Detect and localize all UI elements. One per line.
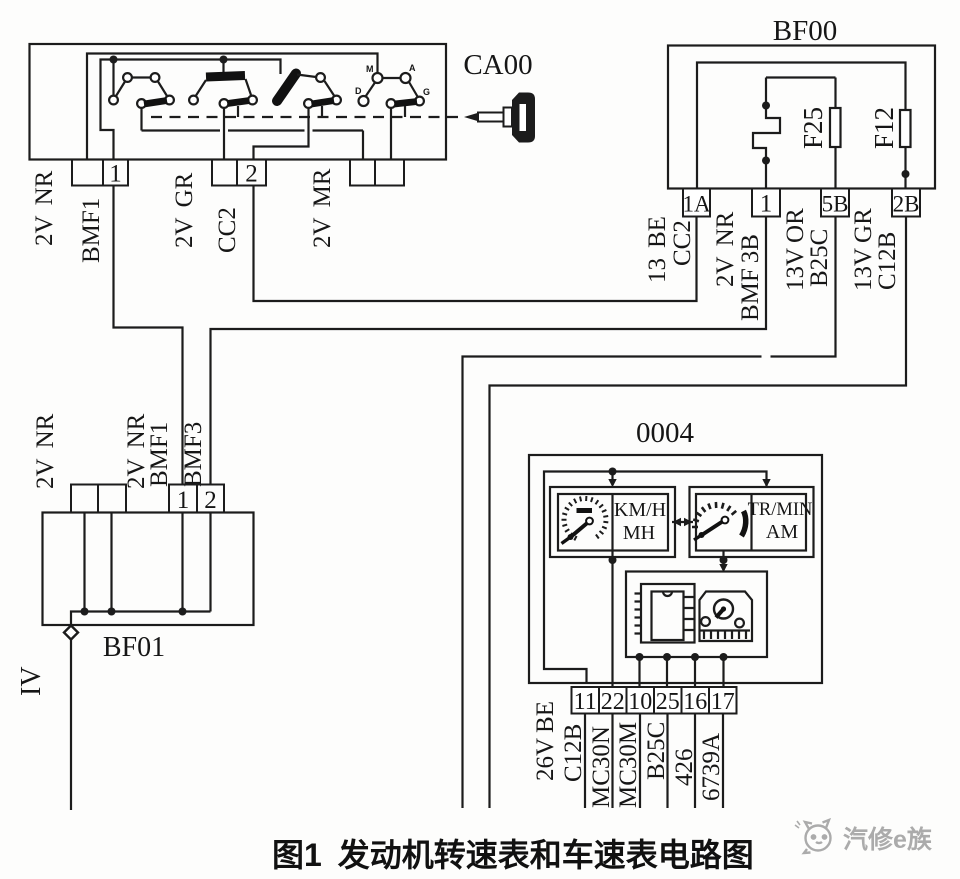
tachometer gauge icon: [692, 502, 736, 527]
switch S2 bridge bar: [206, 76, 245, 78]
contact bus y130 with crossover hops: [142, 131, 364, 160]
cluster 0004 box: [529, 455, 822, 683]
switch S4 arms: [366, 78, 418, 97]
svg-text:2V NR: 2V NR: [32, 413, 59, 489]
switch S1 wiper arms: [116, 78, 167, 97]
svg-text:1A: 1A: [682, 192, 711, 217]
svg-text:26V BE: 26V BE: [532, 701, 559, 781]
fuse box BF00: [668, 46, 935, 189]
switch S4 closed contact bar: [395, 102, 418, 105]
stub to speedometer: [611, 472, 613, 486]
svg-text:17: 17: [711, 689, 735, 715]
svg-text:图1 发动机转速表和车速表电路图: 图1 发动机转速表和车速表电路图: [272, 837, 754, 873]
wire S2 output down to 2V GR pin: [223, 108, 225, 160]
svg-text:G: G: [423, 87, 430, 97]
switch S4 contacts M A D G: [359, 73, 424, 108]
switch S4 actuator stub: [404, 106, 406, 117]
switch S3 rotor bar: [277, 74, 296, 102]
svg-text:2B: 2B: [893, 192, 920, 217]
svg-text:1: 1: [109, 161, 122, 188]
svg-text:13 BE: 13 BE: [644, 216, 671, 283]
junction dot: [220, 56, 228, 64]
pin wires down: [585, 714, 723, 809]
svg-text:B25C: B25C: [806, 229, 833, 287]
svg-text:BMF1: BMF1: [146, 422, 173, 487]
wire speedo to pin 22: [611, 551, 613, 688]
switch S3 actuator stub: [321, 106, 323, 117]
svg-text:1: 1: [177, 487, 190, 514]
svg-text:11: 11: [574, 689, 597, 715]
internal bus: [71, 612, 211, 627]
regulator component: [700, 592, 753, 642]
wire S3 output to pin 2: [254, 108, 309, 160]
fuse F25: [834, 78, 836, 189]
svg-text:TR/MIN: TR/MIN: [748, 500, 813, 520]
svg-text:2V NR: 2V NR: [31, 170, 58, 246]
wire dot to switch S1 pivot: [112, 60, 114, 96]
tie bar breaker to F25: [766, 76, 836, 78]
wire CC2 from CA00 pin2 to BF00 pin 1A: [254, 186, 697, 302]
switch S3 closed contact bar: [312, 101, 335, 105]
svg-text:6739A: 6739A: [698, 733, 725, 801]
svg-text:1: 1: [760, 191, 773, 218]
svg-text:MC30M: MC30M: [615, 722, 642, 808]
switch S3 contacts: [304, 73, 341, 108]
svg-text:M: M: [366, 64, 374, 74]
svg-text:F25: F25: [798, 107, 828, 149]
internal wires to bus: [85, 513, 211, 612]
junction dots: [81, 608, 89, 616]
svg-text:CC2: CC2: [214, 207, 241, 253]
junction dot below F12: [902, 170, 910, 178]
svg-text:C12B: C12B: [874, 232, 901, 290]
wire S1 output to contact bus y130: [140, 108, 142, 131]
svg-text:2V GR: 2V GR: [171, 172, 198, 248]
switch S2 contacts: [189, 96, 257, 108]
wire net to 2V NR box and switch S4 (y53 bus): [87, 54, 378, 160]
svg-text:A: A: [409, 63, 416, 73]
switch S1 closed contact bar: [144, 101, 167, 105]
tachometer box: [690, 487, 814, 557]
svg-text:16: 16: [683, 689, 707, 715]
mechanical link dashed line: [151, 116, 462, 118]
svg-text:2: 2: [245, 161, 258, 188]
svg-text:B25C: B25C: [643, 722, 670, 780]
junction dot: [110, 56, 118, 64]
amplifier output wires: [640, 657, 724, 687]
svg-text:F12: F12: [869, 107, 899, 149]
amplifier box: [626, 572, 767, 658]
svg-text:汽修e族: 汽修e族: [843, 825, 933, 854]
svg-text:13V GR: 13V GR: [850, 208, 877, 291]
cluster pins 11 22 10 25 16 17: [572, 687, 737, 714]
svg-text:BMF3: BMF3: [180, 422, 207, 487]
CA00 connector pins: [72, 160, 404, 186]
svg-text:5B: 5B: [822, 192, 849, 217]
switch S1 contacts: [109, 73, 174, 108]
wire dot to switch S2 bridge: [222, 60, 224, 73]
svg-text:CC2: CC2: [669, 220, 696, 266]
switch S2 closed contact bar: [228, 101, 250, 104]
svg-text:AM: AM: [766, 521, 798, 543]
wire net feed bus (y59) to pin 1: [101, 60, 281, 160]
svg-text:BF01: BF01: [103, 632, 165, 663]
inner bus from 1A to F12: [697, 63, 906, 189]
wire BMF3 from BF01 pin2 to BF00 pin 1: [211, 217, 767, 485]
wire BMF1 from CA00 pin1 to BF01 pin1: [114, 186, 183, 485]
svg-text:10: 10: [628, 689, 652, 715]
junction dot on bus: [609, 468, 617, 476]
svg-text:D: D: [355, 86, 362, 96]
speedometer box: [550, 487, 675, 557]
watermark logo: [795, 820, 831, 853]
earth wire IV: [70, 640, 72, 811]
svg-text:0004: 0004: [636, 417, 695, 449]
junction unit BF01 box: [43, 513, 254, 626]
speedometer gauge icon: [562, 496, 609, 540]
feed wire pin 11 up left side to top bus: [544, 472, 767, 684]
svg-text:KM/H: KM/H: [614, 499, 666, 521]
fuse F12: [900, 110, 911, 147]
wire B25C from BF00 pin 5B with hop: [463, 217, 836, 809]
svg-text:13V OR: 13V OR: [782, 208, 809, 291]
svg-text:2V NR: 2V NR: [712, 211, 739, 287]
switch S2 actuator stub: [237, 106, 239, 117]
BF01 connector pins: [71, 485, 224, 513]
IC chip: [641, 584, 695, 643]
svg-text:IV: IV: [16, 666, 47, 696]
svg-text:25: 25: [656, 689, 680, 715]
svg-text:BMF 3B: BMF 3B: [737, 234, 764, 321]
svg-text:C12B: C12B: [560, 724, 587, 782]
ignition key symbol: [464, 93, 535, 143]
svg-text:2: 2: [204, 487, 217, 514]
circuit breaker zigzag: [753, 78, 780, 189]
switch S2 arms: [196, 79, 251, 96]
svg-text:BMF1: BMF1: [78, 198, 105, 263]
svg-text:CA00: CA00: [463, 49, 532, 81]
BF00 connector pins 1A 1 5B 2B: [683, 189, 920, 217]
wire tacho to amplifier: [722, 551, 724, 571]
svg-text:BF00: BF00: [773, 15, 837, 47]
earth connector diamond: [64, 626, 78, 640]
svg-text:MC30N: MC30N: [588, 726, 615, 808]
wire S4 output down: [390, 108, 392, 160]
wire C12B from BF00 pin 2B: [490, 217, 907, 809]
svg-text:MH: MH: [623, 522, 655, 544]
svg-text:426: 426: [671, 749, 698, 787]
svg-text:22: 22: [601, 689, 625, 715]
link between gauges: [672, 521, 693, 523]
switch unit CA00 box: [30, 44, 447, 160]
switch S3 arm: [297, 75, 334, 96]
svg-text:2V MR: 2V MR: [309, 168, 336, 248]
